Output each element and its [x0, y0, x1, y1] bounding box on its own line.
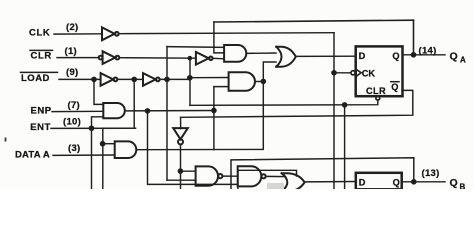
wire inverter feed vertical — [180, 117, 182, 128]
svg-text:CLR: CLR — [31, 50, 52, 61]
svg-text:Q: Q — [393, 178, 400, 188]
node LOAD junction before inverter — [92, 77, 96, 81]
wire LOAD overline — [21, 71, 58, 73]
wire LOAD row end into rail — [189, 78, 192, 80]
wire LOAD rail into NAND B1 lower input — [167, 179, 196, 181]
and-gate DATA A AND — [115, 141, 137, 158]
node CLR distribution junction — [343, 103, 347, 107]
or-gate OR1 — [276, 47, 296, 67]
wire enable branch down to NAND B2 input — [148, 111, 238, 184]
node QB junction — [412, 180, 416, 184]
svg-text:Q: Q — [450, 177, 458, 189]
wire OR B upper feed line — [238, 170, 297, 189]
wire CLK vertical down to flip-flop clocks — [333, 33, 335, 189]
node QB output label — [422, 168, 466, 191]
wire into DATA A gate top input — [103, 143, 115, 145]
wire DATA A input — [53, 154, 115, 156]
wire into NAND B1 top input — [180, 170, 195, 172]
wire ENT input — [51, 127, 136, 129]
svg-text:B: B — [460, 182, 466, 189]
svg-text:A: A — [460, 56, 466, 65]
node QA-bar rail junction — [212, 108, 216, 112]
node DATA gate feed junction — [101, 142, 105, 146]
svg-text:DATA A: DATA A — [15, 149, 50, 160]
inverter CLR buffer — [99, 51, 120, 64]
svg-text:(10): (10) — [63, 116, 81, 127]
wire QA junction vertical — [413, 20, 415, 55]
wire LOAD input — [59, 78, 101, 80]
and-gate AND2 (count term) — [229, 72, 255, 91]
inverter LOAD second — [143, 73, 160, 86]
wire LOAD double buffered to vertical rail — [160, 78, 190, 80]
flip-flop FF1 — [356, 46, 403, 96]
wire FF1 Q output — [403, 54, 446, 56]
and-gate enable AND (ENP·ENT) — [103, 103, 125, 118]
wire FF1 Qbar overline — [391, 81, 399, 83]
wire AND2 top input from CLR rail dot — [190, 77, 229, 79]
node inverter output junction — [178, 169, 182, 173]
svg-text:(2): (2) — [66, 22, 79, 33]
node ENT junction — [89, 126, 93, 130]
wire LOAD rail vertical (up to AND1, down to NAND B1) — [166, 47, 168, 181]
wire OR B output to FF2 D — [305, 181, 356, 183]
wire LOAD branch down to enable AND top input — [94, 79, 103, 104]
or-gate OR B — [282, 173, 305, 191]
wire AND2 bottom input from QA-bar rail — [214, 86, 229, 88]
svg-text:(1): (1) — [65, 46, 78, 57]
node CLR branch junction — [188, 57, 191, 60]
wire CLR input — [57, 57, 99, 59]
node ENP input label — [31, 100, 81, 117]
scan artifact gray patch — [267, 183, 284, 189]
transistor-like clock wedge FF1 — [356, 69, 362, 77]
svg-text:CLR: CLR — [366, 86, 386, 96]
wire CK into FF1 — [334, 72, 351, 74]
svg-text:(3): (3) — [68, 143, 81, 154]
wire ENT jog up into enable AND bottom input — [92, 117, 104, 129]
wire QB feedback line — [231, 158, 414, 189]
wire ENP input — [52, 110, 103, 112]
wire FF2 Q output — [402, 181, 445, 183]
and-gate AND1 (hold term) — [224, 45, 246, 62]
svg-text:Q: Q — [392, 51, 399, 61]
wire AND1 middle input from top feedback line — [214, 22, 224, 53]
svg-text:(14): (14) — [419, 46, 437, 57]
node QA junction — [411, 53, 415, 57]
wire FF1 Qbar feedback — [181, 90, 413, 117]
nand-gate NAND B2 — [238, 166, 266, 186]
svg-text:CLK: CLK — [29, 27, 50, 38]
wire AND1 output to OR1 — [246, 52, 276, 54]
wire enable AND output — [125, 110, 214, 112]
wire CLR second inverter output into AND1 bottom input — [213, 57, 225, 60]
svg-text:Q: Q — [450, 50, 458, 62]
wire LOAD rail into AND1 top input — [167, 46, 224, 49]
wire CLR distribution line — [190, 100, 378, 105]
node QA output label — [419, 46, 467, 65]
wire CLR overline — [30, 49, 53, 51]
wire FF1 CLR bubble — [376, 96, 380, 100]
scan artifact speckle — [5, 138, 7, 142]
wire CLR buffered to second inverter — [119, 57, 195, 60]
wire AND2 output — [255, 81, 263, 83]
node LOAD input label — [21, 67, 79, 84]
svg-text:D: D — [359, 178, 366, 188]
wire ENT down rail — [91, 128, 93, 189]
inverter QA-bar (down pointing) — [173, 128, 188, 144]
inverter CLR second — [196, 52, 213, 65]
svg-text:(13): (13) — [422, 168, 440, 179]
node LOAD junction mid — [132, 77, 136, 81]
node CLK input label — [29, 22, 79, 39]
node LOAD rail junction — [165, 77, 169, 81]
wire LOAD buffered — [117, 78, 143, 80]
wire CLK input — [54, 33, 102, 35]
wire QA-bar rail vertical — [213, 87, 215, 150]
node ENT input label — [30, 116, 81, 132]
inverter CLK buffer — [102, 27, 119, 40]
wire NAND B1 output — [222, 175, 238, 177]
node enable output junction — [145, 109, 149, 113]
svg-text:(7): (7) — [68, 100, 81, 111]
wire OR1 output to FF1 D — [296, 55, 356, 57]
wire branch from mid junction down to ENT rail — [133, 79, 135, 128]
wire ENT rail T branch down to DATA A gate — [103, 127, 136, 129]
nand-gate NAND B1 — [196, 166, 223, 185]
wire NAND B2 output into OR B — [266, 175, 286, 177]
svg-text:(9): (9) — [66, 67, 79, 78]
svg-text:D: D — [359, 51, 366, 61]
wire DATA A gate output to OR feed rail — [136, 62, 276, 150]
svg-text:ENP: ENP — [31, 106, 52, 117]
wire top feedback line (QA to AND1) — [214, 20, 414, 22]
svg-text:LOAD: LOAD — [21, 73, 50, 84]
wire CLR rail vertical segment — [189, 58, 191, 105]
svg-text:CK: CK — [362, 68, 376, 78]
node CK junction FF1 — [332, 71, 336, 75]
node FF1 CK bubble — [351, 71, 355, 75]
inverter LOAD first — [101, 73, 118, 86]
wire inverter output down — [180, 144, 182, 189]
node AND2 output joins rail — [261, 79, 265, 83]
node CLR rail dot — [188, 76, 192, 80]
svg-text:Q: Q — [391, 82, 398, 92]
flip-flop FF2 (partial) — [356, 173, 402, 190]
wire CLK inverted to right — [119, 33, 334, 34]
node CLR input label — [31, 46, 78, 61]
node DATA A input label — [15, 143, 81, 160]
wire CLR branch down to FF2 — [344, 105, 346, 189]
svg-text:ENT: ENT — [30, 122, 51, 133]
